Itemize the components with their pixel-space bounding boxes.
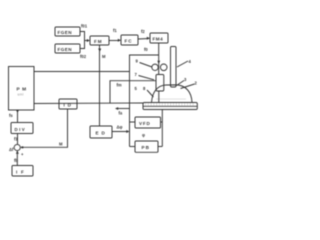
feedback arrow left (116, 108, 130, 110)
wire FM1 down to ED (99, 45, 101, 126)
svg-text:f01: f01 (81, 24, 88, 29)
pulley left circle (152, 64, 158, 70)
svg-text:f2: f2 (141, 29, 145, 34)
pointer to part 9 (140, 63, 153, 68)
arrowhead down above pulleys (157, 61, 160, 64)
arrowhead down on FM1 wire (98, 49, 101, 53)
wire FM2 down to pulleys (158, 43, 160, 75)
svg-text:3: 3 (184, 77, 187, 82)
svg-text:PB: PB (142, 145, 150, 150)
coil rod (158, 91, 160, 103)
wire ED output (112, 131, 129, 133)
laser tube rect (171, 47, 177, 88)
svg-text:VFD: VFD (139, 121, 151, 126)
svg-text:fa: fa (119, 111, 123, 116)
svg-text:f02: f02 (80, 54, 87, 59)
base hatch (146, 103, 194, 106)
base mid seam (143, 105, 197, 107)
svg-text:FC: FC (125, 39, 133, 44)
wire G1 to combiner (80, 32, 85, 41)
arrowhead down from computer (16, 110, 19, 113)
svg-text:φ: φ (142, 133, 145, 138)
divider box DIV (11, 123, 33, 134)
svg-text:f1: f1 (113, 28, 117, 33)
svg-text:Δφ: Δφ (117, 125, 123, 130)
wire ID down and left to summing node (21, 109, 68, 147)
svg-text:Δf: Δf (9, 147, 14, 152)
generator box G1 (55, 27, 80, 36)
wire G2 to combiner (80, 40, 85, 49)
arrowhead up into summing node (16, 151, 19, 154)
wire computer upper output (34, 71, 130, 73)
stub right of VFD (161, 121, 163, 123)
stub left of PB (130, 146, 136, 148)
magnet dome (152, 85, 193, 103)
svg-text:7: 7 (135, 72, 138, 77)
svg-text:fb: fb (14, 158, 18, 163)
svg-text:DIV: DIV (15, 127, 27, 132)
pointer to part 3 (177, 81, 185, 86)
pointer to part 8 (147, 90, 153, 97)
svg-text:8: 8 (143, 86, 146, 91)
svg-text:M: M (102, 54, 106, 59)
svg-text:+: + (21, 152, 24, 157)
integrator box IF (12, 166, 33, 177)
arrowhead feedback (115, 107, 118, 110)
output box PB (135, 141, 158, 152)
summing node circle (14, 144, 20, 150)
pointer to part 7 (139, 76, 155, 80)
generator box G2 (55, 44, 80, 53)
base plate (143, 103, 197, 110)
interface box ID (59, 99, 77, 109)
svg-text:4: 4 (189, 59, 192, 64)
svg-text:uni: uni (18, 93, 24, 97)
stub left of VFD (130, 121, 136, 123)
svg-text:fs: fs (9, 113, 13, 118)
pointer to part 4 (177, 61, 188, 67)
pointer to part 2 (181, 84, 195, 89)
svg-text:FM: FM (94, 39, 103, 44)
svg-text:I F: I F (16, 169, 25, 174)
wire branch at y55 (130, 55, 159, 147)
svg-text:f0: f0 (144, 47, 148, 52)
computer box PC (9, 67, 35, 111)
wire FM1 to FC (109, 40, 120, 42)
pulley right circle (160, 64, 167, 71)
coil rect (156, 75, 164, 92)
arrowhead into FC (118, 39, 121, 42)
wire computer lower output to base (34, 102, 143, 105)
wire to coil (110, 81, 156, 103)
svg-text:FM4: FM4 (153, 37, 164, 42)
svg-text:9: 9 (136, 59, 139, 64)
stub right of PB (158, 146, 162, 148)
amplifier box VFD (135, 117, 161, 128)
svg-text:fm: fm (117, 83, 122, 88)
dome inner coil line (156, 98, 186, 100)
counter box FC (121, 35, 138, 45)
arrowhead into mixer (87, 39, 90, 42)
mixer box FM1 (90, 36, 109, 45)
drive box FM2 (150, 33, 168, 43)
svg-text:2: 2 (195, 81, 198, 86)
phase detector box ED (90, 126, 112, 138)
svg-text:E D: E D (96, 131, 106, 136)
arrowhead into FM2 (147, 37, 150, 40)
svg-text:FGEN: FGEN (58, 30, 73, 35)
svg-text:M: M (59, 142, 63, 147)
svg-text:5: 5 (135, 86, 138, 91)
wire base down to PB (161, 110, 163, 147)
arrowhead ED output (126, 130, 129, 133)
svg-text:I D: I D (64, 103, 72, 108)
wire FC to FM2 (138, 38, 149, 41)
wire divider to summing node (17, 134, 19, 145)
svg-text:FGEN: FGEN (58, 47, 73, 52)
wire combiner to mixer (85, 40, 90, 42)
arrowhead into summing node (22, 146, 24, 148)
wire summing node down to IF (16, 151, 18, 166)
wire computer bottom to divider (17, 110, 19, 123)
